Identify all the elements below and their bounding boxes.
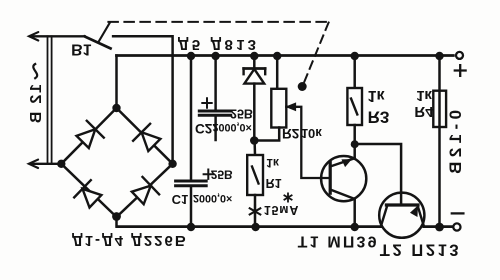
node R3 top [351,52,359,60]
transistor T1 circle [321,156,366,201]
wire bottom rail (-) left segment [117,225,382,228]
wire R4 full vertical [438,56,441,227]
wire R2 bottom lead to node [254,128,279,141]
bridge edge T-R [117,108,173,164]
bridge edge R-B [117,164,173,217]
wire bottom rail (-) right segment [424,225,453,228]
svg-text:10к: 10к [301,126,322,141]
zener diode D5 [244,69,266,84]
minus label [452,212,464,214]
wire T1 emitter to node N1 [353,144,356,158]
capacitor C2 plus sign [202,98,211,107]
svg-text:0-12В: 0-12В [446,110,465,178]
capacitor C2 plates [199,111,230,115]
transistor T2 circle [379,193,424,238]
node C1 bottom [187,223,195,231]
wire C2 bottom lead [214,115,217,140]
wire switch to bridge right vertex [113,36,173,164]
svg-text:R2: R2 [282,126,299,141]
diode D1 upper-left (bar toward top vertex) [77,121,104,148]
wire zener top lead [253,56,256,69]
output terminal plus [456,52,463,59]
wire top rail (+) [117,54,454,57]
node R4 top [435,52,443,60]
node T1 collector bottom [351,223,359,231]
mechanical link dot on R2 [298,82,307,91]
node N1 [351,140,359,148]
wire zener to node [253,84,256,141]
resistor R1 [247,155,263,195]
svg-text:Д5 Д813: Д5 Д813 [178,36,259,53]
svg-text:Т1 МП39: Т1 МП39 [298,233,379,250]
node R1 bottom [251,223,259,231]
wire bridge top vertical [115,56,118,109]
wire left parallel line 2 [51,36,53,164]
node D5 top [250,52,258,60]
node R2 top [273,52,281,60]
svg-text:12 В: 12 В [28,84,45,125]
capacitor C1 plates [176,181,207,186]
svg-text:1к: 1к [368,87,386,104]
resistor R3 [347,88,362,125]
bridge edge T-L [61,108,116,164]
T1 base bar [329,163,332,194]
resistor R4 [433,91,446,127]
svg-text:R3: R3 [368,108,390,127]
wire C2 top lead [214,56,217,112]
wire node N1 to T2 base [355,144,401,205]
output terminal minus [453,223,460,230]
wire T1 collector to bottom rail [353,199,356,227]
svg-text:25В: 25В [230,107,253,121]
svg-text:R1: R1 [266,176,282,190]
svg-text:2000,0×: 2000,0× [213,121,252,133]
wire left parallel line 1 [47,36,49,164]
asterisk break symbol on wire [250,205,261,217]
T1 collector slant [330,190,355,199]
wire R3 bottom to node N1 [353,125,356,144]
wire R1 bottom lead [254,195,257,227]
svg-text:15мА: 15мА [264,203,299,217]
plus label [455,65,466,76]
wire C1 bottom lead [190,186,193,227]
dashed link diagonal to R2 [303,23,329,86]
node bridge top [112,104,120,112]
node C2 top [211,52,219,60]
wire node to R1 [253,141,256,156]
bridge edge L-B [61,164,116,217]
wire R2 top lead [276,56,279,89]
svg-text:1к: 1к [266,156,280,170]
wire AC lower input with arrow [30,163,61,165]
svg-text:25В: 25В [211,168,233,182]
svg-text:Д1-Д4 Д226Б: Д1-Д4 Д226Б [72,232,188,249]
node bridge left [57,160,65,168]
dashed link line horizontal [108,21,327,23]
capacitor C1 plus sign [204,170,213,179]
diode D3 lower-left (bar toward left vertex) [74,180,101,207]
svg-text:В1: В1 [71,41,92,58]
svg-text:2000,0×: 2000,0× [193,192,232,204]
switch B1 lever [85,37,111,49]
svg-text:С1: С1 [172,192,189,207]
svg-text:Т2 П213: Т2 П213 [380,241,461,259]
T2 emitter slant with arrow [417,205,424,226]
node zener R1 R2 [250,136,259,145]
node bridge right [168,160,176,168]
wire AC upper input with arrow [30,35,84,37]
T1 emitter slant with arrow [330,158,355,166]
wire bridge bottom stub [115,216,118,227]
svg-text:R4: R4 [414,103,434,120]
diode D4 lower-right (bar toward right vertex) [132,177,159,204]
dashed link diagonal at switch [98,23,110,43]
T2 collector slant [381,205,388,226]
svg-text:1к: 1к [416,87,432,104]
svg-text:С2: С2 [195,121,212,136]
R2 wiper arrow [286,107,330,178]
diode D2 upper-right (bar toward top vertex) [133,124,160,151]
potentiometer R2 [271,89,286,128]
wire R3 top lead [353,56,356,89]
node bridge bottom [112,212,121,221]
node C1 top [187,52,195,60]
T2 base bar [386,203,418,206]
node R4 bottom [435,223,444,232]
wire C1 top lead [190,56,193,182]
AC tilde symbol [33,64,37,78]
asterisk near R1 label [284,193,291,201]
